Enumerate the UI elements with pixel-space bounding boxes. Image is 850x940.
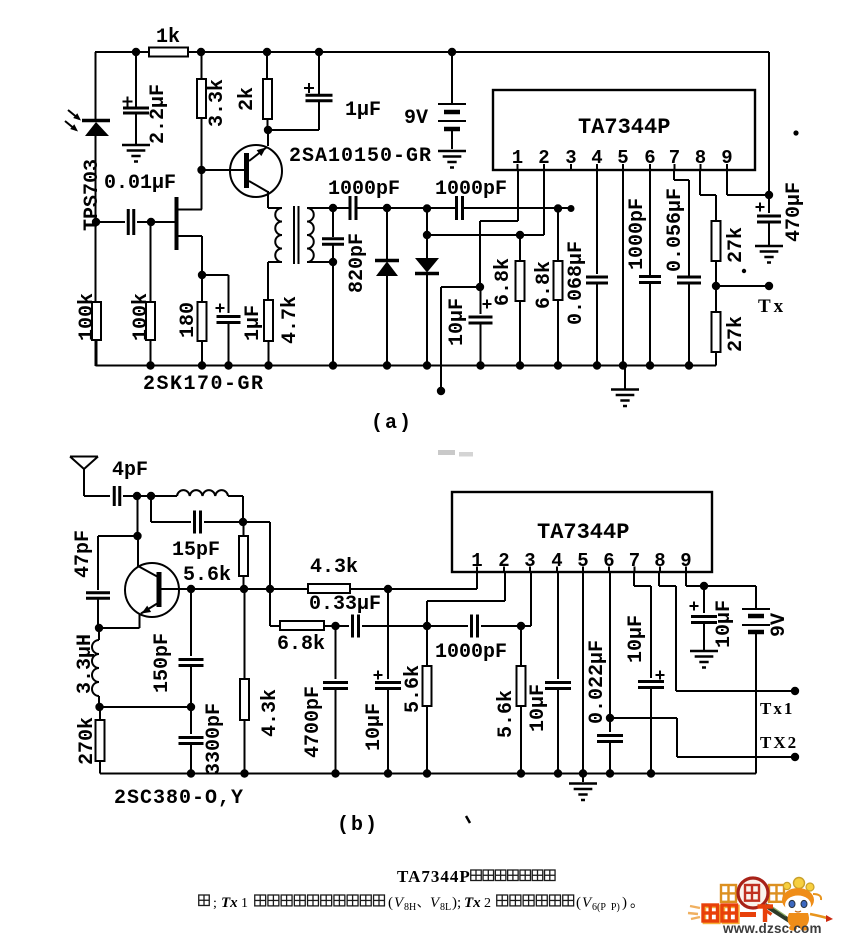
junction bottom rail (b) <box>384 769 392 777</box>
node junction antenna/15pF branch <box>147 492 155 500</box>
junction bottom rail (b) <box>579 769 587 777</box>
node junction D2/pin2 wire <box>423 231 431 239</box>
wire RF line (y=208) <box>333 207 349 209</box>
diode D1 <box>386 208 388 261</box>
node junction antenna/collector column <box>133 492 141 500</box>
node junction 6.8k/0.33uF/4700pF <box>331 622 339 630</box>
caption line 2: note about Tx1/Tx2 outputs <box>199 895 210 906</box>
svg-text:2k: 2k <box>236 87 259 111</box>
wire pin3 drop <box>530 573 532 626</box>
node junction rail/3.3k <box>197 48 205 56</box>
node junction rail/2k <box>263 48 271 56</box>
wire pin1 jog <box>517 170 519 221</box>
svg-text:､: ､ <box>417 895 424 910</box>
svg-text:15pF: 15pF <box>172 539 220 562</box>
svg-text:3.3µH: 3.3µH <box>74 634 97 694</box>
wire collector column <box>137 496 139 536</box>
wire JFET drain up <box>201 170 203 210</box>
svg-text:(: ( <box>388 895 393 911</box>
collector arm (2SC380) <box>138 566 158 577</box>
node junction 0.01uF/100k/gate <box>147 218 155 226</box>
node junction 820pF bottom <box>329 258 337 266</box>
junction bottom rail (a) <box>198 361 206 369</box>
capacitor 1uF (top) <box>318 52 320 94</box>
ground below 9V battery (a) <box>438 150 466 153</box>
node test point (dangling) <box>437 387 445 395</box>
svg-text:27k: 27k <box>725 316 748 352</box>
wire pin6 column <box>609 573 611 732</box>
node junction 2k/1uF/emitter <box>264 126 272 134</box>
svg-text:10µF: 10µF <box>625 615 648 663</box>
node junction 3.3k/base/JFET drain <box>197 166 205 174</box>
wire bottom rail (b) <box>100 773 756 775</box>
junction bottom rail (a) <box>619 361 627 369</box>
transistor Q 2SC380-O,Y <box>125 563 179 617</box>
svg-text:10µF: 10µF <box>713 600 736 648</box>
node junction pin9/rail/470uF <box>765 191 773 199</box>
svg-text:9V: 9V <box>768 613 791 637</box>
inductor L1 (peaking coil) <box>177 490 228 496</box>
svg-text:6(P P): 6(P P) <box>592 902 620 913</box>
node junction 3.3uH/270k/feedback <box>95 703 103 711</box>
wire pin4 column <box>596 170 598 274</box>
junction bottom rail (a) <box>685 361 693 369</box>
junction bottom rail (b) <box>554 769 562 777</box>
node junction pin2/5.6k/1000pF <box>423 622 431 630</box>
node junction rail/9V battery <box>448 48 456 56</box>
node junction 150pF/3300pF/feedback <box>187 703 195 711</box>
junction bottom rail (a) <box>516 361 524 369</box>
wire pin2 jog <box>504 573 506 601</box>
svg-text:0.056µF: 0.056µF <box>664 188 687 272</box>
junction bottom rail (a) <box>264 361 272 369</box>
wire TX2 net <box>610 717 677 719</box>
wire base net (y=589) <box>161 588 308 590</box>
svg-text:1000pF: 1000pF <box>435 178 507 201</box>
resistor 180 <box>201 275 203 302</box>
svg-text:4.7k: 4.7k <box>279 296 302 344</box>
wire pin5 column to ground <box>622 170 624 366</box>
scan speck dot <box>793 130 798 135</box>
wire 820pF node to bottom rail <box>332 262 334 366</box>
emitter arm with arrow (2SC380) <box>141 603 158 614</box>
svg-text:150pF: 150pF <box>151 633 174 693</box>
wire pin2 vertical <box>543 170 545 235</box>
capacitor 1000pF (first) <box>349 196 352 220</box>
svg-text:4.3k: 4.3k <box>259 689 282 737</box>
wire feedback (y=707) <box>100 706 192 708</box>
resistor 27k (lower) <box>715 286 717 312</box>
transistor JFET 2SK170-GR <box>175 197 179 250</box>
svg-text:8H: 8H <box>404 902 416 913</box>
node junction base/150pF <box>187 585 195 593</box>
svg-text:5.6k: 5.6k <box>495 690 518 738</box>
capacitor 3300pF <box>190 707 192 734</box>
svg-text:(b): (b) <box>337 814 379 837</box>
capacitor 1uF (source bypass) <box>217 315 241 318</box>
wire pin8 jog to Tx1 <box>658 573 660 586</box>
svg-text:(a): (a) <box>371 412 413 435</box>
node junction RF/6.8k second <box>554 204 562 212</box>
svg-text:Tx: Tx <box>464 895 481 911</box>
resistor 100k (second) <box>150 222 152 302</box>
capacitor 4700pF <box>335 626 337 679</box>
resistor 1k <box>149 48 188 57</box>
capacitor 10uF (mid) <box>387 589 389 679</box>
svg-text:。: 。 <box>630 896 644 911</box>
emitter arm with arrow (2SA10150) <box>249 147 267 161</box>
ground pin5 (b) <box>569 782 597 785</box>
node junction emitter/47pF/3.3uH <box>95 624 103 632</box>
faint scan dashes <box>438 450 455 455</box>
junction bottom rail (a) <box>554 361 562 369</box>
wire bottom rail (a) <box>96 365 717 367</box>
capacitor 10uF (pin4) <box>557 573 559 679</box>
svg-text:www.dzsc.com: www.dzsc.com <box>722 921 822 935</box>
node junction transformer/820pF top <box>329 204 337 212</box>
svg-text:1: 1 <box>241 896 248 911</box>
capacitor 10uF (pin9) <box>703 586 705 613</box>
svg-text:Tx1: Tx1 <box>760 699 794 718</box>
node junction 10uF top <box>476 283 484 291</box>
corner left bottom rail <box>95 340 97 366</box>
svg-text:2SK170-GR: 2SK170-GR <box>143 373 265 396</box>
node junction RF/D1 <box>383 204 391 212</box>
junction bottom rail (a) <box>593 361 601 369</box>
svg-text:10µF: 10µF <box>527 684 550 732</box>
transformer T1 primary winding <box>268 207 282 209</box>
resistor 3.3k <box>201 52 203 79</box>
node junction pin6/0.022uF/TX2 <box>606 714 614 722</box>
ground symbol on bottom rail (a) <box>624 366 626 390</box>
svg-text:;: ; <box>213 896 217 911</box>
capacitor 0.022uF <box>597 734 623 737</box>
svg-text:0.33µF: 0.33µF <box>309 593 381 616</box>
svg-text:3.3k: 3.3k <box>206 79 229 127</box>
wire RC net (y=626) <box>270 625 280 627</box>
wire pin1 drop <box>476 573 478 589</box>
svg-text:1000pF: 1000pF <box>626 198 649 270</box>
junction bottom rail (b) <box>517 769 525 777</box>
battery 9V (b) <box>755 586 757 608</box>
resistor 100k (left) <box>92 302 101 340</box>
svg-text:TA7344P: TA7344P <box>578 115 670 140</box>
junction bottom rail (b) <box>187 769 195 777</box>
node junction base/tank column <box>266 585 274 593</box>
scan tick <box>466 816 470 823</box>
node junction pin9/10uF/9V <box>700 582 708 590</box>
svg-text:6.8k: 6.8k <box>492 258 515 306</box>
wire pin8 jog to 27k divider <box>699 170 701 195</box>
capacitor 1000pF (pin6) <box>649 170 651 276</box>
node corner RF to pin3 <box>568 205 575 212</box>
terminal Tx <box>765 282 773 290</box>
resistor 6.8k (first) <box>519 235 521 261</box>
svg-text:4700pF: 4700pF <box>302 686 325 758</box>
svg-text:820pF: 820pF <box>346 233 369 293</box>
node junction source/180/1uF <box>198 271 206 279</box>
junction bottom rail (a) <box>476 361 484 369</box>
wire source node to 1uF <box>202 274 229 276</box>
svg-text:1µF: 1µF <box>345 99 381 122</box>
transformer T1 secondary winding <box>307 208 314 262</box>
svg-text:100k: 100k <box>130 293 153 341</box>
svg-text:5.6k: 5.6k <box>402 665 425 713</box>
junction bottom rail (a) <box>383 361 391 369</box>
svg-text:Tx: Tx <box>221 895 238 911</box>
wire to Tx terminal <box>716 285 769 287</box>
capacitor 0.01uF <box>96 221 126 223</box>
wire pin9 jog <box>685 573 687 586</box>
wire base 2SA10150 <box>202 169 245 171</box>
svg-text:180: 180 <box>177 302 200 338</box>
resistor 2k <box>266 52 268 79</box>
resistor 5.6k (second b) <box>520 626 522 666</box>
junction bottom rail (a) <box>146 361 154 369</box>
wire top supply rail (a) <box>95 51 149 53</box>
svg-text:1000pF: 1000pF <box>328 178 400 201</box>
svg-text:TA7344P: TA7344P <box>397 867 471 886</box>
node junction 6.8k first top <box>516 231 524 239</box>
capacitor 0.056uF (pin7) <box>673 170 675 180</box>
resistor 6.8k (second) <box>557 209 559 262</box>
svg-text:10µF: 10µF <box>363 703 386 751</box>
scan speck dot 2 <box>742 269 746 273</box>
junction bottom rail (a) <box>423 361 431 369</box>
capacitor 2.2uF <box>135 52 137 107</box>
svg-text:6.8k: 6.8k <box>277 633 325 656</box>
svg-text:10µF: 10µF <box>446 298 469 346</box>
resistor 270k <box>99 707 101 720</box>
resistor 5.6k (first b) <box>426 626 428 666</box>
capacitor 47pF <box>97 536 99 590</box>
resistor 4.7k <box>264 300 273 341</box>
resistor 6.8k (horizontal) <box>280 621 324 630</box>
resistor 4.3k (horizontal) <box>308 584 350 593</box>
svg-text:2SC380-O,Y: 2SC380-O,Y <box>114 787 244 810</box>
light arrow 2 into TPS703 <box>65 121 76 130</box>
battery 9V (a) <box>451 52 453 103</box>
node junction rail/1uF <box>315 48 323 56</box>
svg-text:9V: 9V <box>404 107 428 130</box>
svg-text:100k: 100k <box>76 293 99 341</box>
svg-text:TA7344P: TA7344P <box>537 520 629 545</box>
svg-text:47pF: 47pF <box>72 530 95 578</box>
svg-text:270k: 270k <box>76 717 99 765</box>
wire 47pF top to collector node <box>98 535 137 537</box>
node junction 27k divider / Tx <box>712 282 720 290</box>
capacitor 10uF (a) <box>480 287 482 314</box>
junction bottom rail (a) <box>329 361 337 369</box>
junction bottom rail (b) <box>606 769 614 777</box>
svg-text:): ) <box>622 895 627 911</box>
junction bottom rail (a) <box>646 361 654 369</box>
junction bottom rail (b) <box>423 769 431 777</box>
node junction RF/D2 <box>423 204 431 212</box>
wire pin9 to supply node <box>726 170 728 195</box>
wire pin5 column to ground <box>582 573 584 782</box>
wire left rail drop (TPS703 column) <box>95 52 97 121</box>
ground below 2.2uF <box>122 144 150 147</box>
antenna <box>70 456 98 458</box>
capacitor 0.33uF <box>351 615 354 638</box>
svg-text:27k: 27k <box>725 227 748 263</box>
wire JFET source down <box>201 236 203 275</box>
capacitor 150pF <box>190 589 192 656</box>
svg-text:Tx: Tx <box>758 296 786 317</box>
svg-text:5.6k: 5.6k <box>183 564 231 587</box>
capacitor 1000pF (second) <box>455 196 458 220</box>
node junction 15pF/coil/5.6k <box>239 518 247 526</box>
svg-text:2SA10150-GR: 2SA10150-GR <box>289 145 432 168</box>
svg-text:4pF: 4pF <box>112 459 148 482</box>
svg-text:TX2: TX2 <box>760 733 798 752</box>
svg-text:2.2µF: 2.2µF <box>147 84 170 144</box>
ground below 470uF <box>755 245 783 248</box>
resistor 27k (upper) <box>712 221 721 261</box>
capacitor 1000pF (b) <box>427 625 468 627</box>
wire gate to JFET <box>151 221 175 223</box>
svg-text:1k: 1k <box>156 26 180 49</box>
svg-text:6.8k: 6.8k <box>533 261 556 309</box>
terminal TX2 <box>791 753 799 761</box>
svg-text:(: ( <box>576 895 581 911</box>
junction bottom rail (b) <box>331 769 339 777</box>
svg-text:0.01µF: 0.01µF <box>104 172 176 195</box>
IC U2 TA7344P (b) <box>452 492 712 572</box>
capacitor 10uF (pin7) <box>638 680 664 683</box>
inductor 3.3uH <box>98 628 100 640</box>
capacitor 15pF <box>150 496 152 522</box>
collector arm (2SA10150) <box>249 181 268 192</box>
photodiode TPS703 <box>82 119 110 123</box>
ground below 10uF pin9 <box>690 650 718 653</box>
wire L to test point below board <box>441 286 480 288</box>
resistor 4.3k (vertical) <box>244 589 246 679</box>
svg-text:2: 2 <box>484 896 491 911</box>
junction bottom rail (b) <box>647 769 655 777</box>
node junction rail/2.2uF <box>132 48 140 56</box>
svg-text:1µF: 1µF <box>242 305 265 341</box>
watermark: dzsc.com logo group <box>688 878 833 937</box>
junction bottom rail (b) <box>240 769 248 777</box>
node junction TPS703/0.01uF <box>92 218 100 226</box>
IC U1 TA7344P (a) <box>493 90 755 170</box>
svg-text:0.022µF: 0.022µF <box>586 640 609 724</box>
node junction 4.3k out / 10uF column <box>384 585 392 593</box>
wire right rail drop to 470uF node <box>768 52 770 213</box>
node junction 47pF/collector <box>133 532 141 540</box>
svg-text:8L: 8L <box>440 902 451 913</box>
wire to tank column x=270 <box>243 521 270 523</box>
diode D2 <box>426 209 428 259</box>
node junction base/5.6k/4.3k column <box>240 585 248 593</box>
svg-text:4.3k: 4.3k <box>310 556 358 579</box>
transformer T1 core <box>293 206 295 264</box>
wire pin7 jog <box>633 573 635 586</box>
capacitor 470uF <box>757 215 781 218</box>
svg-text:0.068µF: 0.068µF <box>565 241 588 325</box>
svg-text:1000pF: 1000pF <box>435 641 507 664</box>
svg-text:);: ); <box>452 895 461 911</box>
transistor Q 2SA10150-GR <box>230 145 282 197</box>
node junction 1000pF/5.6k second <box>517 622 525 630</box>
capacitor 0.068uF <box>586 276 608 279</box>
light arrow 1 into TPS703 <box>68 110 79 119</box>
terminal Tx1 <box>791 687 799 695</box>
wire D2 node to pin2 net (y=235) <box>427 234 544 236</box>
svg-text:3300pF: 3300pF <box>203 703 226 775</box>
resistor 5.6k (tank) <box>243 522 245 536</box>
svg-text:470µF: 470µF <box>783 182 806 242</box>
capacitor 4pF <box>84 495 110 497</box>
capacitor 820pF <box>332 208 334 237</box>
junction bottom rail (a) <box>224 361 232 369</box>
